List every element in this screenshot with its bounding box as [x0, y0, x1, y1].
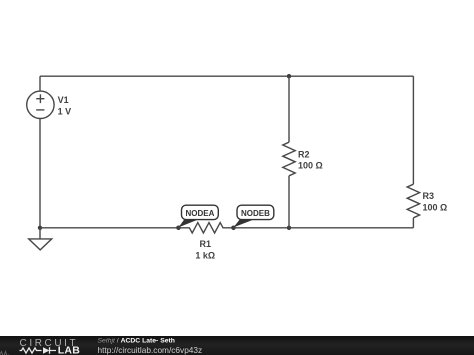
- svg-text:R3: R3: [423, 191, 435, 201]
- wire: V1 top lead: [39, 76, 41, 91]
- footer left edge squiggle fragment: [0, 352, 9, 355]
- junction: top center node: [287, 74, 291, 78]
- footer title text: [98, 337, 175, 344]
- svg-text:http://circuitlab.com/c6vp43z: http://circuitlab.com/c6vp43z: [98, 345, 203, 355]
- ground: [29, 228, 52, 250]
- node B junction dot: [231, 226, 236, 231]
- svg-text:1 kΩ: 1 kΩ: [195, 250, 215, 260]
- node flag NODEA: [179, 205, 219, 227]
- svg-text:V1: V1: [58, 95, 69, 105]
- wire: V1 bottom lead: [39, 119, 41, 228]
- CircuitLab logo LAB: [58, 345, 80, 355]
- label R1 name: [200, 239, 212, 249]
- resistor R1: [179, 223, 234, 233]
- voltage source V1: [27, 91, 54, 118]
- junction: ground node: [38, 226, 42, 230]
- label R1 value 1 kohm: [195, 250, 215, 260]
- svg-text:100 Ω: 100 Ω: [423, 203, 448, 213]
- label V1 name: [58, 95, 69, 105]
- svg-text:1 V: 1 V: [58, 107, 72, 117]
- label R3 value 100 ohm: [423, 203, 448, 213]
- footer watermark bar: [0, 336, 474, 355]
- label R3 name: [423, 191, 435, 201]
- CircuitLab logo wordmark CIRCUIT: [20, 338, 79, 349]
- CircuitLab logo diode: [43, 347, 56, 354]
- svg-text:NODEB: NODEB: [241, 209, 270, 218]
- wire: bottom middle segment: [234, 227, 290, 229]
- svg-text:100 Ω: 100 Ω: [298, 160, 323, 170]
- footer url text: [98, 345, 203, 355]
- svg-text:NODEA: NODEA: [185, 209, 214, 218]
- wire: bottom right segment: [289, 227, 413, 229]
- svg-text:Sethjt / ACDC Late- Seth: Sethjt / ACDC Late- Seth: [98, 337, 175, 344]
- junction: bottom center node: [287, 226, 291, 230]
- resistor R3: [407, 184, 419, 218]
- node A junction dot: [176, 226, 181, 231]
- wire: middle vertical upper: [288, 76, 290, 142]
- wire: middle vertical lower: [288, 176, 290, 228]
- label R2 value 100 ohm: [298, 160, 323, 170]
- wire: right vertical lower: [412, 218, 414, 228]
- resistor R2: [283, 142, 295, 176]
- CircuitLab logo resistor squiggle: [20, 348, 42, 353]
- wire: top horizontal net: [40, 75, 413, 77]
- svg-text:R2: R2: [298, 150, 310, 160]
- wire: right vertical upper: [412, 76, 414, 184]
- label R2 name: [298, 150, 310, 160]
- wire: bottom left segment: [40, 227, 179, 229]
- svg-text:R1: R1: [200, 239, 212, 249]
- node flag NODEB: [234, 205, 274, 227]
- svg-text:LAB: LAB: [58, 345, 80, 355]
- label V1 value 1 V: [58, 107, 72, 117]
